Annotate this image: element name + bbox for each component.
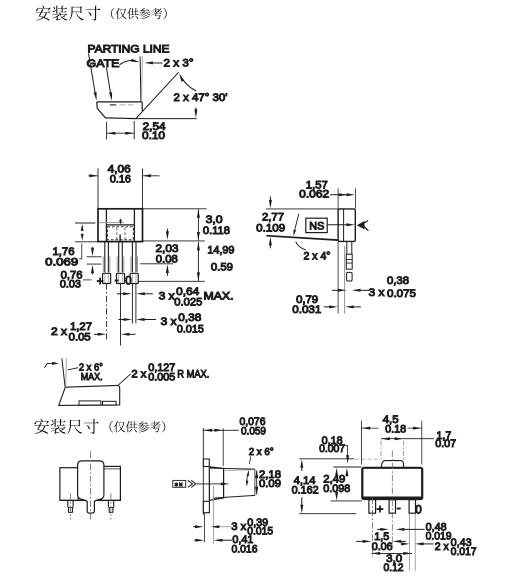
- NS leader arrow: [327, 224, 351, 226]
- left outer lead: [68, 500, 73, 507]
- svg-text:0.06: 0.06: [372, 541, 393, 553]
- draft angle lines: [62, 359, 65, 388]
- svg-text:2 x 47° 30': 2 x 47° 30': [174, 92, 228, 104]
- leads: [369, 500, 376, 514]
- svg-text:+: +: [377, 504, 384, 516]
- mounted package: right shoulder: [101, 466, 120, 500]
- svg-text:0.059: 0.059: [241, 426, 266, 438]
- svg-text:S N: S N: [175, 482, 183, 487]
- svg-text:2 x 4°: 2 x 4°: [304, 250, 331, 262]
- right outer lead: [108, 500, 113, 507]
- dim 2,03 / 0.08: [140, 263, 173, 265]
- svg-text:3 x: 3 x: [369, 287, 386, 299]
- main body: [362, 468, 422, 499]
- lead 3: [132, 242, 136, 272]
- lead edge extension: [204, 514, 206, 543]
- svg-text:0.015: 0.015: [177, 324, 204, 336]
- hidden center lead line: [213, 486, 215, 544]
- dim 2,18 / 0.09: [256, 471, 258, 495]
- body bottom reference line: [331, 500, 362, 502]
- svg-text:0.05: 0.05: [69, 332, 91, 344]
- horizontal baseline: [136, 118, 197, 120]
- mold parting dashes inside body: [110, 104, 116, 106]
- hidden die pad (dashed): [108, 227, 134, 240]
- dim 2,77 / 0.109: [269, 197, 271, 205]
- svg-text:0,38: 0,38: [178, 312, 201, 324]
- dim 3 x 0,64 / 0.025 MAX.: [117, 293, 126, 295]
- center tab and center lead: [78, 461, 104, 513]
- svg-text:14,99: 14,99: [207, 245, 234, 257]
- dim 4,14 / 0.162: [301, 463, 303, 471]
- svg-text:0.07: 0.07: [435, 438, 456, 450]
- svg-text:0.005: 0.005: [148, 371, 175, 383]
- svg-text:0.007: 0.007: [319, 443, 345, 455]
- dim 2 x 0,43 / 0.017: [401, 543, 403, 545]
- package body (gate/parting-line profile view): [97, 102, 143, 119]
- back reference line: [202, 428, 204, 515]
- mounted package: left shoulder: [60, 468, 78, 501]
- svg-text:3 x: 3 x: [231, 521, 247, 533]
- lead below body (segmented): [347, 242, 352, 255]
- svg-text:0.162: 0.162: [292, 485, 319, 497]
- dim 2 x 1,27 / 0.05: [94, 333, 99, 335]
- lead centerlines: [372, 451, 392, 557]
- side body: [209, 467, 223, 500]
- dim 3 x 0,39 / 0.015: [193, 526, 196, 528]
- arrow at draft angle: [45, 363, 54, 367]
- dim 3 x 0,38 / 0.015: [118, 319, 125, 321]
- tab bump on body top: [381, 461, 403, 468]
- svg-text:0.12: 0.12: [384, 562, 404, 574]
- top reference line: [299, 458, 354, 460]
- arc leader for 2 x 47° 30: [181, 76, 197, 91]
- svg-text:MAX.: MAX.: [204, 290, 234, 302]
- svg-text:0.18: 0.18: [385, 423, 406, 435]
- 47 deg diagonal line: [136, 72, 179, 118]
- svg-text:NS: NS: [309, 221, 324, 233]
- svg-text:2 x: 2 x: [435, 541, 450, 553]
- dim 4,5 / 0.18: [361, 421, 421, 465]
- stand-off feet: [79, 401, 101, 405]
- lead 2 centerline: [120, 284, 122, 346]
- svg-text:0.016: 0.016: [232, 544, 258, 556]
- svg-text:0: 0: [415, 505, 421, 517]
- lead 2: [119, 242, 123, 272]
- dim 1,76 / 0.069: [75, 223, 97, 242]
- lead 3 edge extensions: [409, 514, 415, 571]
- body right edge extension: [222, 428, 224, 466]
- down arrow onto baseline: [195, 108, 197, 114]
- dim 1,7 / 0.07: [381, 438, 434, 440]
- 2 x 6° angle arc and label: [247, 472, 249, 485]
- NS marking box: [306, 218, 327, 232]
- body inner flange lines: [106, 210, 134, 242]
- lead centerlines: [71, 451, 111, 519]
- dim 0,48 / 0.019: [377, 528, 382, 530]
- vertical parting line: [139, 57, 142, 102]
- dim 0,41 / 0.016: [194, 539, 197, 541]
- dim 14,99 / 0.59 (right): [139, 242, 205, 281]
- title 2: mounting dimensions (reference only): [34, 419, 165, 434]
- svg-text:0: 0: [125, 276, 131, 288]
- dim 2,49 / 0.098: [336, 471, 338, 474]
- curved leader to parting line (left arrow): [120, 60, 136, 64]
- svg-text:0.109: 0.109: [256, 223, 285, 235]
- svg-text:0.025: 0.025: [174, 297, 202, 309]
- dim 3,0 / 0.118 (right): [143, 209, 207, 241]
- svg-text:+: +: [97, 276, 104, 288]
- svg-text:0.098: 0.098: [323, 483, 350, 495]
- svg-text:0.062: 0.062: [299, 188, 329, 200]
- dim 1,5 / 0.06: [356, 540, 364, 542]
- flat lead top edge: [266, 208, 338, 210]
- svg-text:3 x: 3 x: [161, 316, 178, 328]
- lead 1 centerline: [106, 284, 108, 342]
- bottom lead stub: [203, 501, 209, 512]
- dim 0,076 / 0.059: [203, 429, 239, 431]
- body bottom edge: [61, 499, 120, 501]
- svg-text:0.09: 0.09: [259, 478, 281, 490]
- dim 2,54 / 0.10: [107, 121, 135, 139]
- svg-text:0.031: 0.031: [292, 304, 321, 316]
- bottom reference line: [299, 513, 356, 515]
- side view: extension line (body left edge): [337, 189, 339, 209]
- svg-text:0,38: 0,38: [387, 275, 409, 287]
- svg-text:0.16: 0.16: [110, 174, 131, 186]
- flat lead bottom edge (tapered): [266, 236, 338, 240]
- leader from GATE to body: [107, 68, 112, 97]
- svg-text:0.59: 0.59: [211, 262, 233, 274]
- svg-text:0.069: 0.069: [45, 256, 78, 268]
- svg-text:0.08: 0.08: [156, 254, 178, 266]
- internal reference line: [75, 222, 95, 224]
- svg-text:-: -: [115, 275, 119, 287]
- svg-text:2 x 3°: 2 x 3°: [164, 58, 194, 70]
- lead 1: [105, 242, 109, 272]
- svg-text:2 x 6°: 2 x 6°: [249, 447, 274, 458]
- svg-text:2 x: 2 x: [51, 326, 68, 338]
- svg-text:3 x: 3 x: [159, 290, 176, 302]
- svg-text:0.118: 0.118: [203, 225, 230, 237]
- svg-text:0.10: 0.10: [142, 130, 165, 142]
- lead 3 thin extension: [132, 284, 136, 324]
- dim 0,76 / 0.03: [87, 257, 102, 264]
- svg-text:PARTING LINE: PARTING LINE: [88, 44, 170, 56]
- side view body: [338, 209, 355, 242]
- 2 x 4° angle arc and label: [294, 214, 299, 233]
- dim 3,0 / 0.12: [371, 552, 412, 554]
- package body front view: [98, 209, 143, 242]
- svg-text:R MAX.: R MAX.: [177, 369, 209, 381]
- top lead stub: [203, 459, 209, 467]
- title: mounting dimensions (reference only): [36, 6, 167, 21]
- lead edge extension line: [344, 246, 346, 314]
- side view: extension line (body right edge): [354, 189, 356, 209]
- svg-text:MAX.: MAX.: [81, 372, 103, 383]
- svg-text:2 x: 2 x: [131, 369, 147, 381]
- orientation mark (double chevron): [357, 221, 365, 229]
- svg-text:0.03: 0.03: [60, 279, 81, 291]
- flat lead (tapered blade): [210, 468, 255, 469]
- svg-text:0.017: 0.017: [451, 546, 477, 558]
- package profile (stand-off view): [59, 385, 120, 405]
- body top-left reference line: [333, 466, 361, 468]
- svg-text:-: -: [397, 502, 401, 514]
- svg-text:0.075: 0.075: [387, 288, 416, 300]
- dim 3 x 0,38 / 0.075: [332, 289, 340, 291]
- dim 4,06 / 0.16: [88, 169, 159, 209]
- leader from PARTING LINE to body: [89, 54, 96, 96]
- marking box S N with chevrons: [173, 480, 186, 487]
